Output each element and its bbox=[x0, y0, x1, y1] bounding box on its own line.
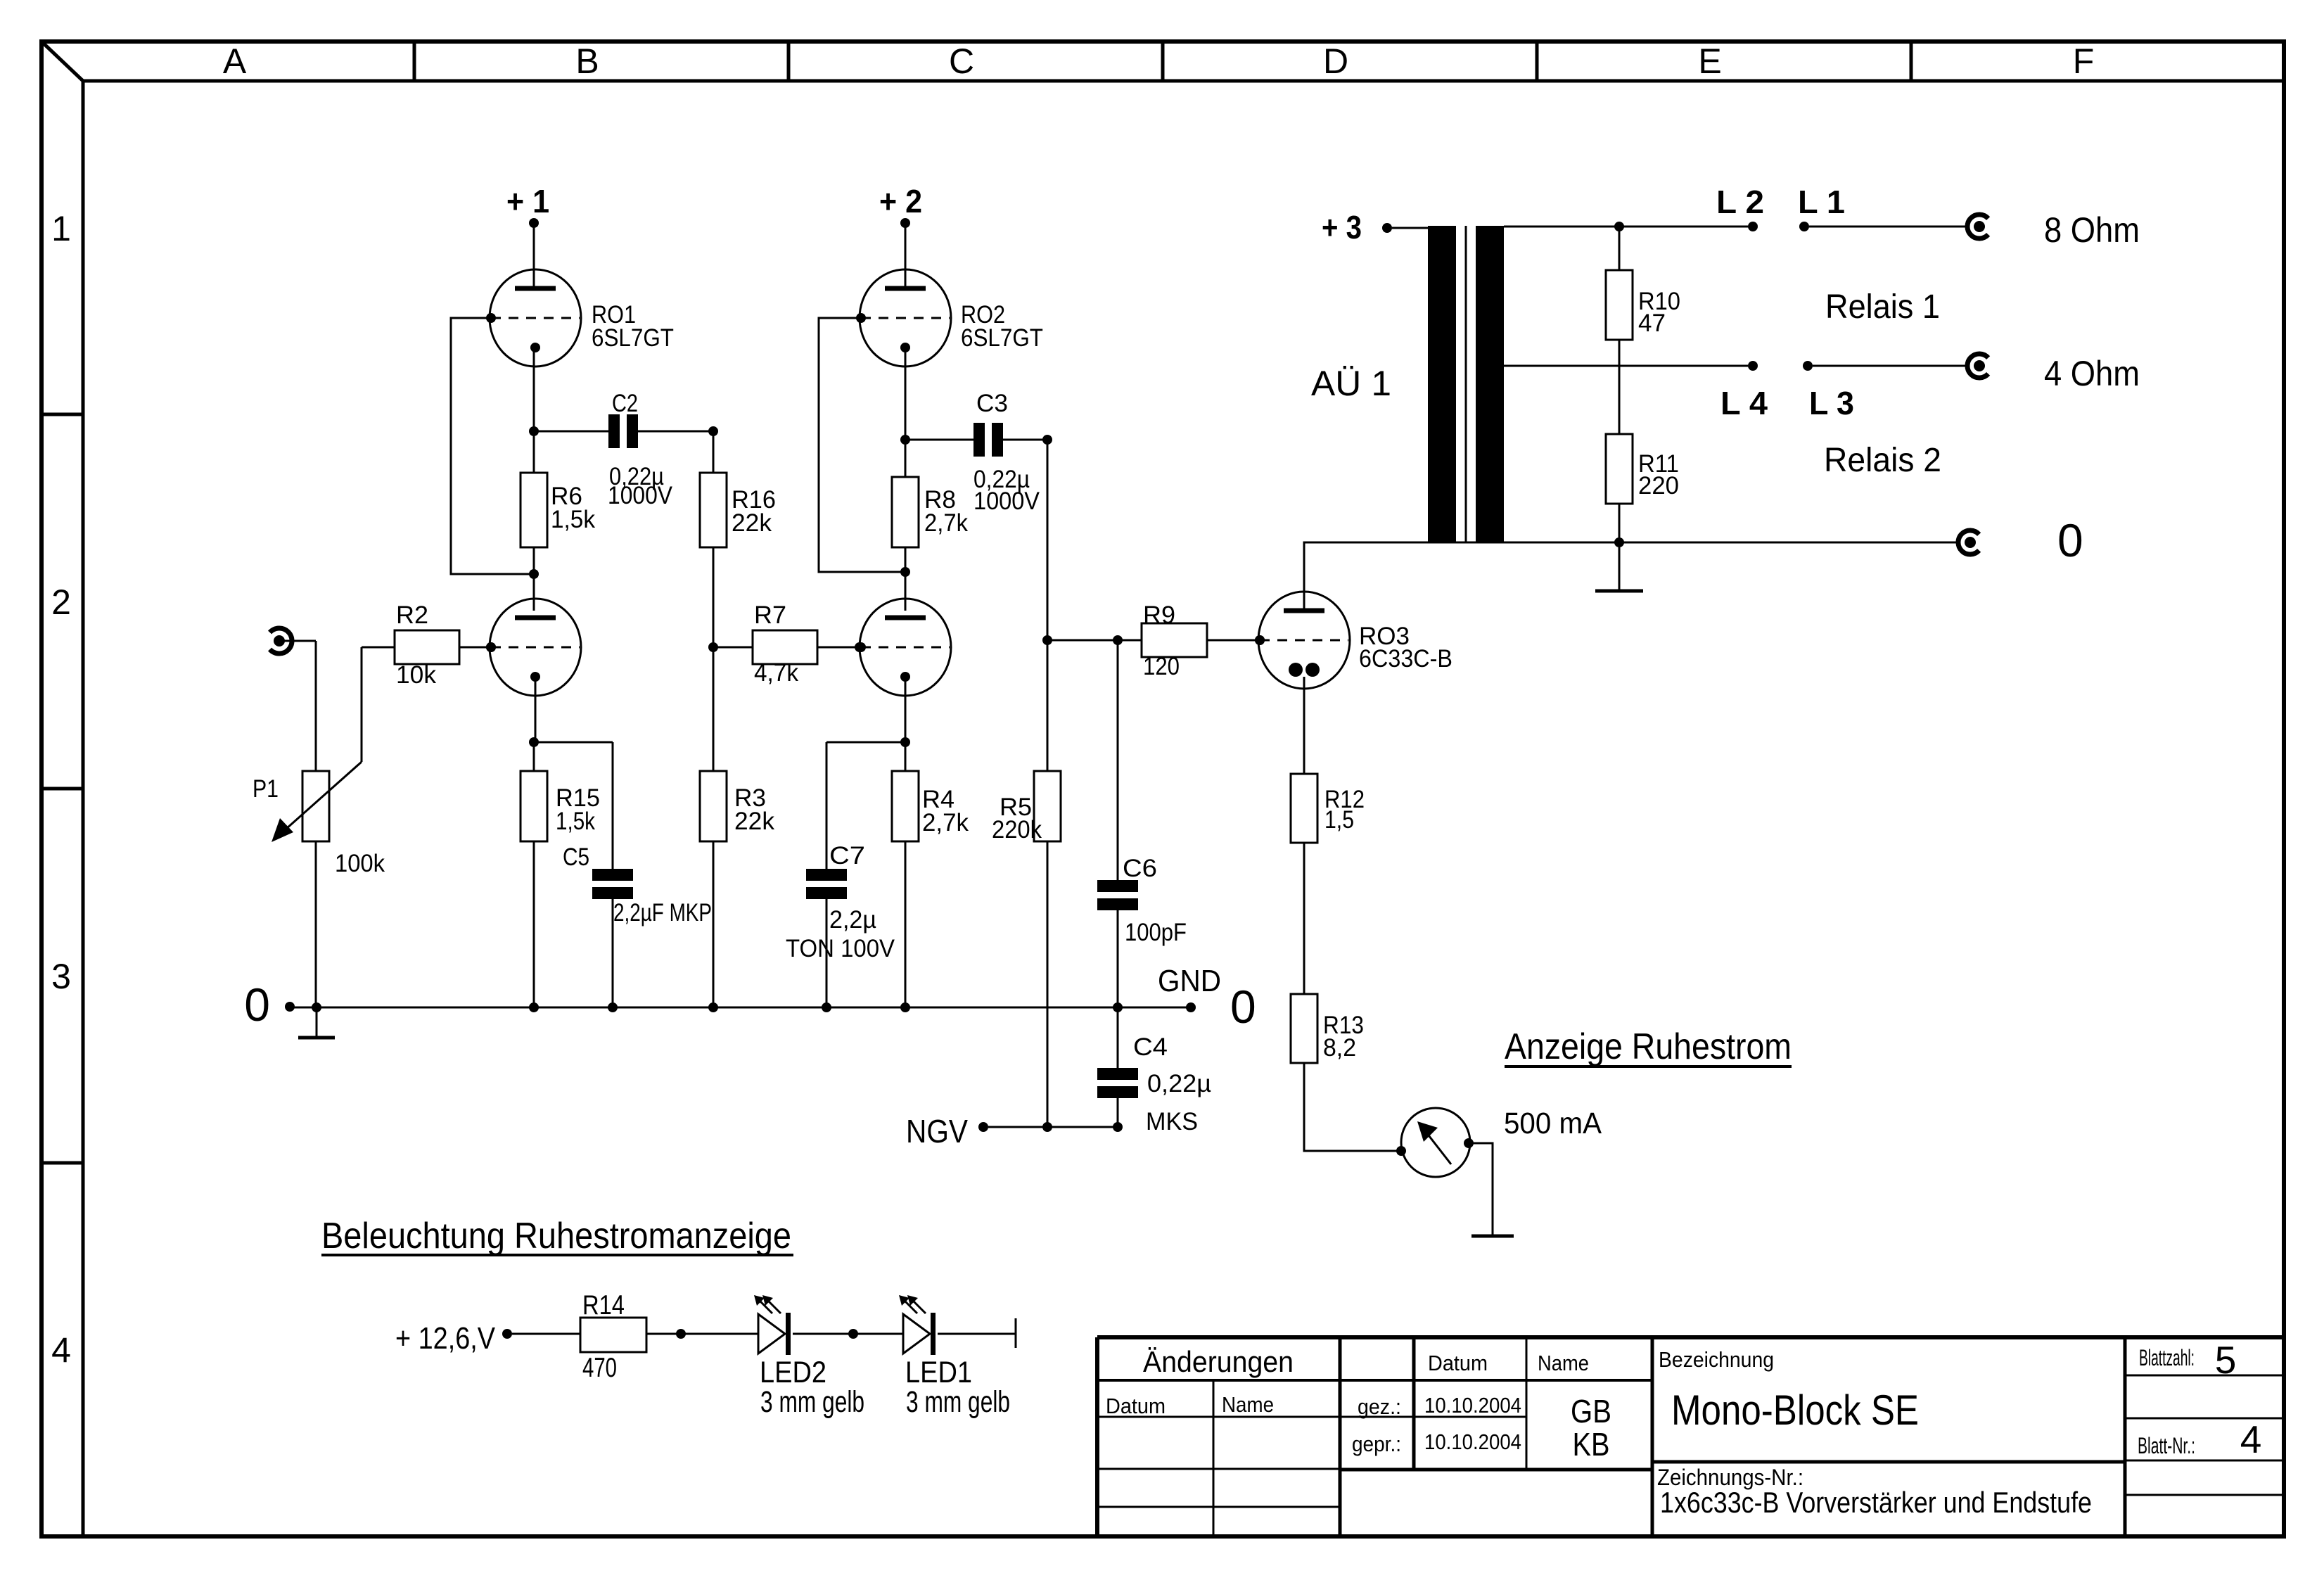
svg-text:2,7k: 2,7k bbox=[924, 509, 968, 537]
svg-text:470: 470 bbox=[582, 1353, 617, 1383]
svg-text:NGV: NGV bbox=[906, 1113, 968, 1149]
svg-text:6SL7GT: 6SL7GT bbox=[961, 324, 1043, 352]
svg-text:MKS: MKS bbox=[1146, 1108, 1198, 1135]
svg-text:C5: C5 bbox=[563, 843, 589, 871]
svg-text:Blatt-Nr.:: Blatt-Nr.: bbox=[2138, 1433, 2195, 1458]
svg-text:+ 3: + 3 bbox=[1322, 209, 1362, 246]
svg-text:Anzeige Ruhestrom: Anzeige Ruhestrom bbox=[1505, 1026, 1792, 1067]
svg-text:2,2µ: 2,2µ bbox=[829, 906, 876, 934]
svg-text:KB: KB bbox=[1573, 1426, 1610, 1463]
svg-text:Datum: Datum bbox=[1428, 1351, 1488, 1375]
svg-text:220: 220 bbox=[1638, 472, 1679, 499]
svg-text:5: 5 bbox=[2215, 1338, 2237, 1382]
svg-text:100pF: 100pF bbox=[1125, 919, 1187, 946]
svg-text:gepr.:: gepr.: bbox=[1352, 1432, 1401, 1456]
svg-text:1,5k: 1,5k bbox=[551, 506, 595, 533]
svg-text:22k: 22k bbox=[732, 509, 772, 537]
svg-text:Blattzahl:: Blattzahl: bbox=[2139, 1345, 2195, 1370]
svg-text:4 Ohm: 4 Ohm bbox=[2044, 354, 2140, 393]
svg-text:10.10.2004: 10.10.2004 bbox=[1424, 1393, 1521, 1418]
svg-text:Name: Name bbox=[1222, 1392, 1274, 1417]
svg-text:3 mm gelb: 3 mm gelb bbox=[906, 1385, 1010, 1419]
svg-text:R7: R7 bbox=[754, 601, 786, 629]
svg-text:4: 4 bbox=[51, 1331, 71, 1370]
svg-text:500 mA: 500 mA bbox=[1504, 1107, 1602, 1140]
svg-text:1,5k: 1,5k bbox=[556, 808, 595, 835]
svg-text:F: F bbox=[2073, 42, 2095, 81]
svg-text:3 mm gelb: 3 mm gelb bbox=[760, 1385, 864, 1419]
svg-text:C6: C6 bbox=[1123, 855, 1157, 882]
svg-text:10k: 10k bbox=[396, 661, 436, 689]
svg-text:120: 120 bbox=[1143, 653, 1180, 680]
svg-text:L 3: L 3 bbox=[1809, 385, 1854, 421]
svg-text:P1: P1 bbox=[253, 775, 279, 803]
svg-text:Datum: Datum bbox=[1106, 1394, 1166, 1418]
svg-text:C2: C2 bbox=[612, 390, 638, 417]
svg-text:LED2: LED2 bbox=[760, 1356, 826, 1389]
svg-text:1000V: 1000V bbox=[608, 482, 673, 509]
svg-text:LED1: LED1 bbox=[905, 1356, 972, 1389]
svg-text:0,22µ: 0,22µ bbox=[1147, 1070, 1211, 1097]
svg-text:Name: Name bbox=[1538, 1351, 1589, 1375]
svg-text:Bezeichnung: Bezeichnung bbox=[1659, 1347, 1774, 1372]
svg-text:3: 3 bbox=[51, 957, 71, 996]
svg-text:C4: C4 bbox=[1133, 1033, 1168, 1061]
svg-text:2: 2 bbox=[51, 582, 71, 622]
svg-text:GB: GB bbox=[1571, 1393, 1611, 1429]
svg-text:8,2: 8,2 bbox=[1323, 1034, 1356, 1062]
svg-text:100k: 100k bbox=[335, 850, 385, 877]
svg-text:1,5: 1,5 bbox=[1324, 806, 1354, 834]
svg-text:TON 100V: TON 100V bbox=[786, 935, 895, 962]
svg-text:Änderungen: Änderungen bbox=[1143, 1345, 1294, 1378]
svg-text:+ 1: + 1 bbox=[506, 183, 549, 219]
svg-text:6C33C-B: 6C33C-B bbox=[1359, 645, 1452, 673]
svg-text:A: A bbox=[223, 42, 247, 81]
svg-text:1: 1 bbox=[51, 209, 71, 248]
svg-text:6SL7GT: 6SL7GT bbox=[592, 324, 674, 352]
svg-text:L 1: L 1 bbox=[1798, 184, 1845, 220]
svg-text:L 2: L 2 bbox=[1716, 184, 1764, 220]
svg-text:0: 0 bbox=[2057, 514, 2083, 566]
svg-text:gez.:: gez.: bbox=[1358, 1394, 1401, 1419]
svg-text:L 4: L 4 bbox=[1720, 385, 1768, 421]
svg-text:Relais 1: Relais 1 bbox=[1825, 288, 1940, 326]
svg-text:B: B bbox=[575, 42, 599, 81]
svg-text:R2: R2 bbox=[396, 601, 428, 629]
svg-text:AÜ 1: AÜ 1 bbox=[1311, 364, 1391, 403]
svg-text:GND: GND bbox=[1158, 964, 1221, 998]
svg-text:0: 0 bbox=[1230, 981, 1256, 1033]
svg-text:Beleuchtung Ruhestromanzeige: Beleuchtung Ruhestromanzeige bbox=[321, 1216, 791, 1256]
svg-text:C3: C3 bbox=[976, 390, 1008, 417]
svg-text:Mono-Block SE: Mono-Block SE bbox=[1671, 1387, 1919, 1434]
svg-text:4,7k: 4,7k bbox=[754, 659, 798, 687]
svg-text:220k: 220k bbox=[992, 816, 1042, 843]
svg-text:2,7k: 2,7k bbox=[922, 809, 969, 836]
svg-text:R9: R9 bbox=[1143, 601, 1175, 629]
svg-text:R14: R14 bbox=[582, 1290, 625, 1320]
svg-text:1000V: 1000V bbox=[973, 488, 1040, 515]
svg-text:+ 2: + 2 bbox=[879, 183, 922, 219]
svg-text:4: 4 bbox=[2240, 1418, 2262, 1461]
svg-text:+ 12,6,V: + 12,6,V bbox=[395, 1321, 496, 1356]
svg-text:D: D bbox=[1323, 42, 1348, 81]
svg-text:E: E bbox=[1698, 42, 1721, 81]
svg-text:C: C bbox=[949, 42, 974, 81]
svg-text:10.10.2004: 10.10.2004 bbox=[1424, 1429, 1521, 1454]
svg-text:C7: C7 bbox=[829, 842, 865, 870]
svg-text:47: 47 bbox=[1638, 310, 1666, 337]
svg-text:8 Ohm: 8 Ohm bbox=[2044, 210, 2140, 250]
svg-text:0: 0 bbox=[244, 979, 270, 1031]
svg-text:1x6c33c-B Vorverstärker und En: 1x6c33c-B Vorverstärker und Endstufe bbox=[1660, 1486, 2092, 1519]
svg-text:2,2µF MKP: 2,2µF MKP bbox=[613, 899, 712, 926]
svg-text:Relais 2: Relais 2 bbox=[1824, 442, 1941, 479]
svg-text:22k: 22k bbox=[734, 808, 774, 835]
